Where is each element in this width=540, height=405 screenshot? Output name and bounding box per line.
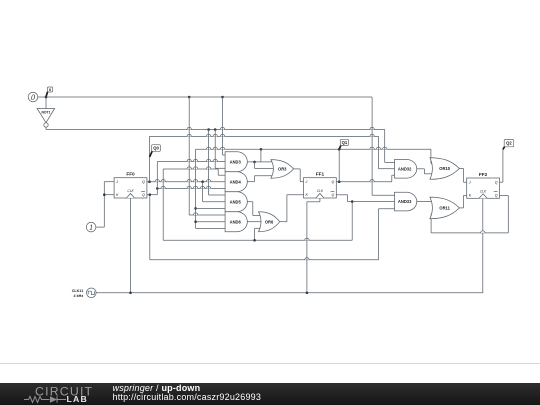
svg-text:J: J bbox=[305, 180, 308, 184]
svg-text:1: 1 bbox=[89, 223, 93, 232]
svg-text:Q: Q bbox=[142, 193, 145, 197]
svg-text:AND5: AND5 bbox=[230, 199, 242, 204]
svg-text:NOT1: NOT1 bbox=[41, 111, 50, 115]
svg-text:CLK: CLK bbox=[317, 189, 324, 193]
svg-text:FF0: FF0 bbox=[126, 172, 135, 177]
svg-text:Q: Q bbox=[332, 193, 335, 197]
svg-text:OR6: OR6 bbox=[265, 219, 274, 224]
svg-text:CLK: CLK bbox=[127, 189, 134, 193]
svg-text:AND32: AND32 bbox=[398, 166, 412, 171]
svg-text:Q: Q bbox=[332, 180, 335, 184]
svg-text:J: J bbox=[115, 180, 118, 184]
svg-text:Q1: Q1 bbox=[342, 140, 348, 145]
svg-text:Q: Q bbox=[495, 193, 498, 197]
svg-text:OR3: OR3 bbox=[278, 167, 287, 172]
svg-text:CLK: CLK bbox=[480, 190, 487, 194]
svg-text:4 kHz: 4 kHz bbox=[74, 294, 84, 298]
svg-text:AND4: AND4 bbox=[230, 179, 242, 184]
svg-text:Q: Q bbox=[495, 180, 498, 184]
svg-text:Q0: Q0 bbox=[153, 146, 159, 151]
svg-text:0: 0 bbox=[31, 93, 35, 102]
svg-text:Q2: Q2 bbox=[506, 141, 512, 146]
svg-text:Q: Q bbox=[142, 180, 145, 184]
svg-text:FF2: FF2 bbox=[479, 172, 488, 177]
svg-text:AND3: AND3 bbox=[230, 159, 242, 164]
svg-text:LAB: LAB bbox=[67, 394, 88, 404]
svg-text:OR11: OR11 bbox=[439, 206, 450, 211]
svg-text:J: J bbox=[468, 180, 471, 184]
svg-text:OR10: OR10 bbox=[439, 166, 450, 171]
svg-text:FF1: FF1 bbox=[316, 172, 325, 177]
svg-text:AND33: AND33 bbox=[398, 199, 412, 204]
svg-text:CLK11: CLK11 bbox=[72, 289, 83, 293]
svg-text:AND6: AND6 bbox=[230, 219, 242, 224]
